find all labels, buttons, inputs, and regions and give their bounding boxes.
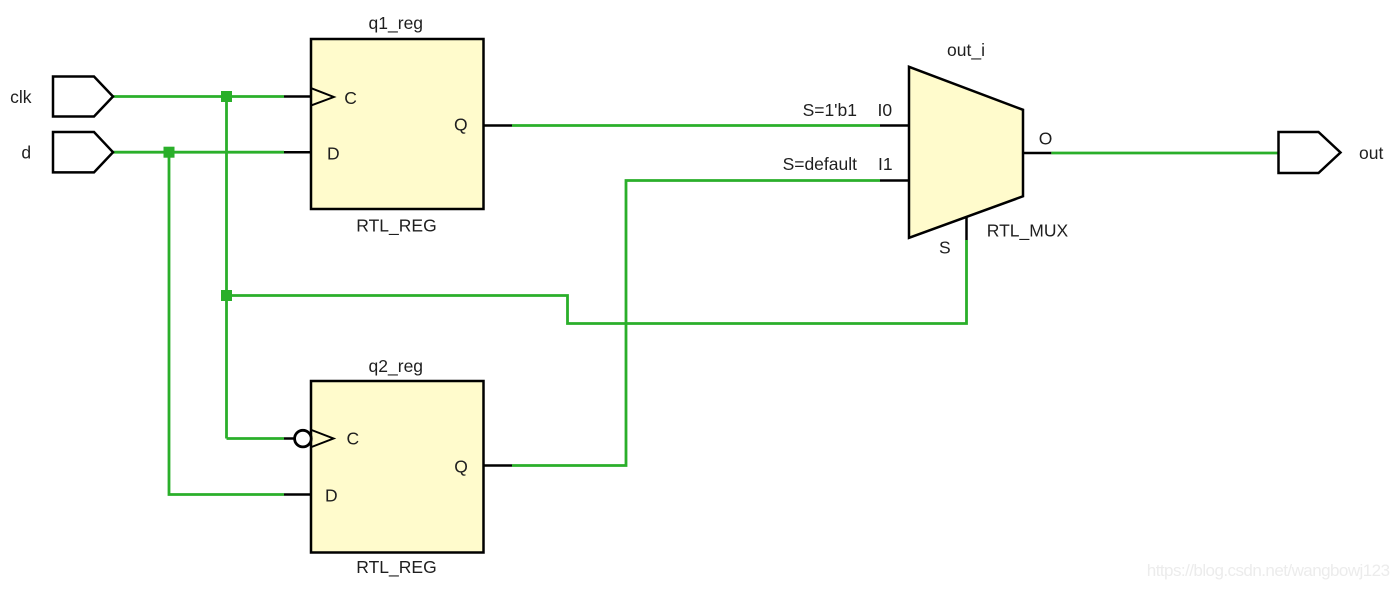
pin label q1 Q <box>454 115 468 135</box>
svg-text:clk: clk <box>10 87 32 107</box>
junction d net <box>164 147 175 158</box>
pin label q2 Q <box>454 457 468 477</box>
label out <box>1359 143 1383 163</box>
svg-text:d: d <box>21 143 31 163</box>
pin stub q2 C <box>284 437 295 440</box>
register q2_reg body <box>311 381 484 553</box>
pin label q2 D <box>325 486 338 506</box>
svg-text:RTL_MUX: RTL_MUX <box>987 221 1069 242</box>
pin stub q1 Q <box>484 124 513 127</box>
label q2_reg <box>369 356 424 377</box>
pin label O <box>1039 129 1053 149</box>
svg-text:Q: Q <box>454 457 468 477</box>
pin stub q1 C <box>284 95 311 98</box>
svg-text:RTL_REG: RTL_REG <box>356 215 436 236</box>
svg-text:RTL_REG: RTL_REG <box>356 557 436 578</box>
pin stub mux S <box>965 217 968 240</box>
pin label q1 C <box>344 88 357 108</box>
wire q2 clock horizontal <box>227 437 285 440</box>
svg-text:S=default: S=default <box>783 154 858 174</box>
wire clk vertical to q2 clock <box>225 97 228 439</box>
svg-text:D: D <box>325 486 338 506</box>
pin label S <box>939 238 951 258</box>
wire S net from junction to mux S <box>227 240 967 324</box>
output port out <box>1279 132 1341 173</box>
svg-text:Q: Q <box>454 115 468 135</box>
svg-text:C: C <box>344 88 357 108</box>
pin stub mux I0 <box>880 124 909 127</box>
svg-text:I1: I1 <box>878 154 893 174</box>
label q2 RTL_REG <box>356 557 436 578</box>
pin label q2 C <box>347 429 360 449</box>
q2 clock triangle <box>312 430 334 447</box>
pin stub mux O <box>1023 152 1051 155</box>
wire q2 Q to mux I1 <box>512 181 880 466</box>
svg-text:C: C <box>347 429 360 449</box>
pin label I0 <box>878 100 893 120</box>
pin stub q2 D <box>284 493 311 496</box>
wire d horizontal <box>113 151 284 154</box>
svg-text:D: D <box>327 144 340 164</box>
pin label I1 <box>878 154 893 174</box>
q2 clock bubble <box>295 430 312 447</box>
svg-text:out: out <box>1359 143 1383 163</box>
wire d vertical to q2 D <box>169 152 284 494</box>
svg-text:q1_reg: q1_reg <box>369 13 424 34</box>
pin label q1 D <box>327 144 340 164</box>
wire mux O to out port <box>1051 152 1278 155</box>
label RTL_MUX <box>987 221 1069 242</box>
svg-text:q2_reg: q2_reg <box>369 356 424 377</box>
mux out_i body <box>909 67 1023 238</box>
watermark <box>1147 561 1390 580</box>
svg-text:S: S <box>939 238 951 258</box>
label d <box>21 143 31 163</box>
net label S=default <box>783 154 858 174</box>
pin stub q1 D <box>284 151 311 154</box>
pin stub mux I1 <box>880 179 909 182</box>
svg-text:O: O <box>1039 129 1053 149</box>
junction S net <box>221 290 232 301</box>
label clk <box>10 87 32 107</box>
wire clk horizontal <box>113 95 284 98</box>
q1 clock triangle <box>312 88 334 105</box>
label out_i <box>947 40 985 61</box>
svg-text:I0: I0 <box>878 100 893 120</box>
label q1 RTL_REG <box>356 215 436 236</box>
input port clk <box>53 77 113 117</box>
wire q1 Q to mux I0 <box>512 124 880 127</box>
input port d <box>53 132 113 172</box>
svg-text:S=1'b1: S=1'b1 <box>803 100 857 120</box>
svg-text:out_i: out_i <box>947 40 985 61</box>
label q1_reg <box>369 13 424 34</box>
register q1_reg body <box>311 39 484 209</box>
svg-text:https://blog.csdn.net/wangbowj: https://blog.csdn.net/wangbowj123 <box>1147 561 1390 580</box>
pin stub q2 Q <box>483 464 512 467</box>
junction clk net <box>221 91 232 102</box>
net label S=1'b1 <box>803 100 857 120</box>
